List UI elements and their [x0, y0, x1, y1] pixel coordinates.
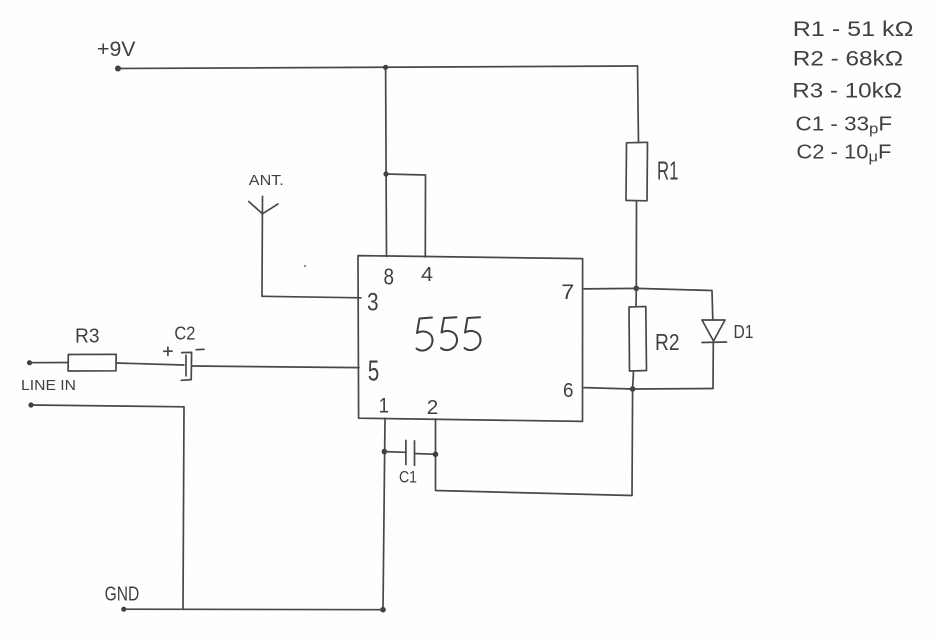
wire R2 bottom to pin6 junction [632, 371, 635, 389]
pin number 2 [427, 397, 439, 419]
svg-text:C1: C1 [399, 468, 417, 487]
wire pin 7 [584, 287, 636, 290]
svg-text:C2: C2 [174, 324, 195, 344]
label R1 value designator [657, 156, 679, 186]
svg-text:8: 8 [384, 263, 395, 289]
svg-text:R2: R2 [655, 329, 680, 355]
wire C1 left lead [384, 451, 406, 454]
wire lower terminal to gnd rail [31, 405, 184, 609]
label GND [105, 584, 140, 606]
label parts list C2 value [796, 142, 891, 166]
svg-text:2: 2 [427, 397, 439, 419]
pin number 4 [421, 264, 433, 286]
svg-text:4: 4 [421, 264, 433, 286]
svg-text:5: 5 [368, 355, 380, 387]
node pin1 to gnd junction [380, 607, 386, 613]
node GND terminal [121, 607, 126, 612]
wire terminal to R3 [30, 362, 69, 364]
wire top +9V rail [118, 66, 638, 69]
label C2 minus polarity [196, 348, 204, 350]
wire R3 to C2 [116, 363, 184, 365]
svg-text:R1 - 51 kΩ: R1 - 51 kΩ [793, 18, 914, 41]
resistor R3 [68, 354, 116, 371]
capacitor C2 polarized [181, 352, 191, 380]
pin number 6 [563, 380, 573, 402]
pin number 3 [367, 289, 379, 317]
wire junction to R2 top [635, 288, 637, 306]
antenna ANT [249, 196, 278, 296]
label 555 [417, 317, 481, 350]
label +9V supply [97, 38, 136, 61]
resistor R1 [626, 142, 648, 201]
svg-text:D1: D1 [734, 322, 754, 342]
svg-text:ANT.: ANT. [249, 172, 284, 189]
svg-text:7: 7 [561, 281, 574, 304]
pin number 1 [379, 394, 389, 417]
label C2 plus polarity [164, 347, 172, 355]
label parts list R1 value [793, 18, 914, 41]
label R2 designator [655, 329, 680, 355]
node junction pin 6 / R2 / D1 [630, 386, 636, 392]
svg-text:6: 6 [563, 380, 573, 402]
resistor R2 [629, 307, 647, 372]
svg-text:C2 - 10μF: C2 - 10μF [796, 142, 891, 166]
wire branch to pin 4 [386, 174, 426, 257]
node C1 left junction [382, 449, 388, 455]
node junction top rail to pin 8 [383, 65, 388, 70]
node junction pin 7 / R1 / R2 / D1 [634, 286, 640, 292]
wire pin 1 down to gnd [383, 418, 385, 609]
diode D1 [702, 320, 727, 389]
svg-text:3: 3 [367, 289, 379, 317]
svg-text:1: 1 [379, 394, 389, 417]
label parts list R3 value [792, 80, 902, 103]
label LINE IN [21, 377, 76, 394]
svg-text:LINE IN: LINE IN [21, 377, 76, 394]
stray mark [304, 265, 306, 267]
label parts list C1 value [796, 114, 893, 138]
IC 555 U1 body [358, 256, 583, 422]
node junction pin8/pin4 branch [383, 171, 388, 176]
node +9V terminal [115, 66, 121, 72]
svg-text:GND: GND [105, 584, 140, 606]
wire R1 bottom to pin7 junction [635, 201, 637, 289]
label parts list R2 value [793, 48, 904, 71]
wire pin6 junction down and left to pin 2 [436, 389, 633, 496]
wire GND rail [124, 608, 383, 611]
label C1 designator [399, 468, 417, 487]
wire antenna to pin 3 [262, 296, 361, 298]
wire C1 right lead [415, 453, 436, 456]
node LINE IN terminal lower [28, 402, 33, 407]
wire pin 6 [584, 388, 713, 389]
svg-text:+9V: +9V [97, 38, 136, 61]
wire top rail down to R1 [638, 66, 639, 143]
svg-text:R2 - 68kΩ: R2 - 68kΩ [793, 48, 904, 71]
pin number 7 [561, 281, 574, 304]
svg-text:R3: R3 [75, 326, 100, 348]
svg-text:R1: R1 [657, 156, 679, 186]
svg-text:C1 - 33pF: C1 - 33pF [796, 114, 893, 138]
label D1 designator [734, 322, 754, 342]
pin number 8 [384, 263, 395, 289]
wire C2 to pin 5 [192, 366, 359, 368]
wire vcc to pin 8 [385, 67, 388, 256]
label R3 designator [75, 326, 100, 348]
label ANT [249, 172, 284, 189]
capacitor C1 [406, 440, 415, 465]
wire junction to D1 top [636, 288, 713, 320]
pin number 5 [368, 355, 380, 387]
label C2 designator [174, 324, 195, 344]
svg-text:R3 - 10kΩ: R3 - 10kΩ [792, 80, 902, 103]
node LINE IN terminal upper [27, 360, 32, 365]
node C1 right junction [433, 452, 439, 458]
